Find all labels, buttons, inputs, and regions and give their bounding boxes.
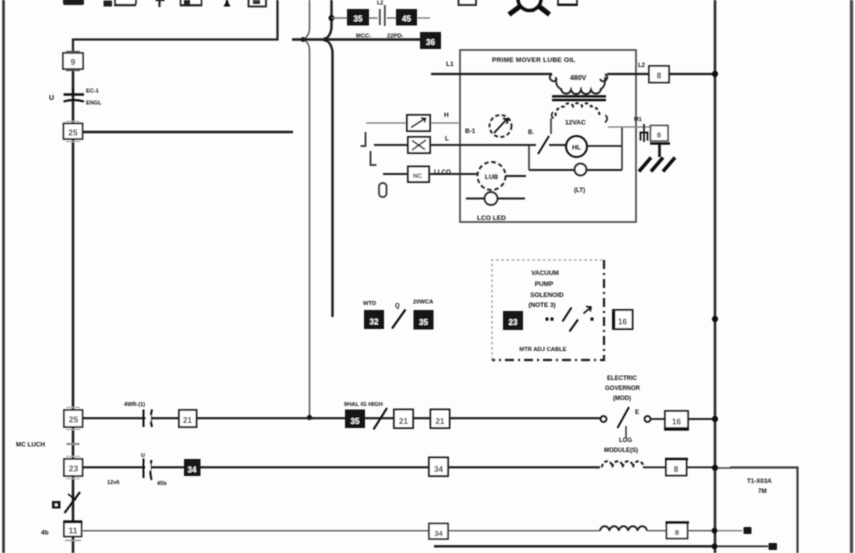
svg-text:ELECTRIC: ELECTRIC <box>607 376 638 382</box>
svg-text:(MOD): (MOD) <box>613 396 631 402</box>
svg-text:32: 32 <box>370 318 379 327</box>
svg-text:H: H <box>444 112 449 119</box>
svg-text:21: 21 <box>436 417 445 426</box>
svg-text:HL: HL <box>572 145 581 152</box>
svg-text:35: 35 <box>419 318 428 327</box>
svg-text:EC-1: EC-1 <box>86 89 99 95</box>
svg-text:4WR-(1): 4WR-(1) <box>124 402 145 408</box>
svg-text:8: 8 <box>675 528 679 537</box>
svg-text:MTR ADJ CABLE: MTR ADJ CABLE <box>519 347 566 353</box>
svg-text:Q: Q <box>395 304 400 310</box>
svg-text:LLCO: LLCO <box>434 169 451 176</box>
svg-text:GOVERNOR: GOVERNOR <box>605 386 641 392</box>
svg-text:12VAC: 12VAC <box>565 120 586 127</box>
svg-text:VACUUM: VACUUM <box>531 270 559 277</box>
svg-text:8: 8 <box>657 131 661 140</box>
svg-text:MODULE(S): MODULE(S) <box>604 448 638 454</box>
svg-text:35: 35 <box>351 417 360 426</box>
svg-text:L2: L2 <box>377 1 383 7</box>
svg-text:B.: B. <box>528 130 534 136</box>
svg-text:23: 23 <box>69 464 79 474</box>
svg-text:T1-X03A: T1-X03A <box>747 478 772 485</box>
svg-text:34: 34 <box>434 529 443 538</box>
svg-text:L: L <box>445 136 449 143</box>
svg-text:36: 36 <box>426 38 435 47</box>
svg-text:M1: M1 <box>634 117 642 123</box>
svg-text:LCO LED: LCO LED <box>477 215 506 222</box>
svg-text:PUMP: PUMP <box>535 281 554 288</box>
svg-text:(LT): (LT) <box>574 187 585 194</box>
svg-text:480V: 480V <box>570 75 587 82</box>
svg-text:8: 8 <box>674 465 679 474</box>
svg-text:16: 16 <box>672 418 681 427</box>
svg-text:WTD: WTD <box>363 301 376 307</box>
svg-text:LOG: LOG <box>619 438 632 444</box>
svg-text:SOLENOID: SOLENOID <box>530 292 564 299</box>
svg-text:16: 16 <box>618 318 627 327</box>
svg-text:U: U <box>49 95 54 102</box>
svg-text:9HAL IG HIGH: 9HAL IG HIGH <box>344 402 383 408</box>
svg-text:34: 34 <box>434 465 443 474</box>
svg-text:ENGL: ENGL <box>86 101 102 107</box>
svg-text:9: 9 <box>71 57 76 67</box>
svg-text:23: 23 <box>509 318 518 327</box>
svg-text:11: 11 <box>69 526 78 536</box>
svg-text:45b: 45b <box>157 481 167 487</box>
svg-text:E: E <box>635 409 639 416</box>
svg-text:4b: 4b <box>41 530 49 537</box>
svg-text:L2: L2 <box>638 63 646 69</box>
svg-text:21: 21 <box>399 417 408 426</box>
svg-text:25: 25 <box>68 128 78 138</box>
svg-text:U: U <box>141 453 145 459</box>
svg-text:35: 35 <box>354 15 363 24</box>
svg-text:L1: L1 <box>446 61 454 68</box>
svg-text:12v6: 12v6 <box>107 480 119 486</box>
svg-text:B-1: B-1 <box>465 128 476 135</box>
svg-text:8: 8 <box>657 72 662 81</box>
svg-text:PRIME MOVER LUBE OIL: PRIME MOVER LUBE OIL <box>492 57 576 64</box>
svg-text:MC LUCH: MC LUCH <box>16 442 45 449</box>
svg-text:LUB: LUB <box>485 174 499 181</box>
svg-text:25: 25 <box>69 415 79 425</box>
svg-text:21: 21 <box>183 416 192 425</box>
svg-text:45: 45 <box>402 15 411 24</box>
svg-text:20WCA: 20WCA <box>413 300 434 306</box>
svg-text:NC: NC <box>413 173 423 180</box>
svg-text:34: 34 <box>188 466 197 475</box>
svg-text:7M: 7M <box>758 488 767 495</box>
svg-text:(NOTE 3): (NOTE 3) <box>528 302 555 309</box>
